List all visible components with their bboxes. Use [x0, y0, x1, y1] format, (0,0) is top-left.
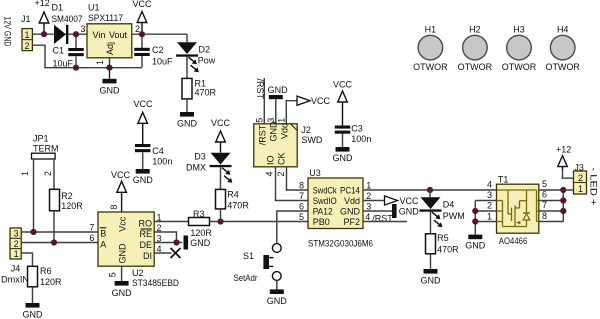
- svg-text:U3: U3: [309, 168, 321, 178]
- svg-text:SWD: SWD: [301, 135, 322, 145]
- svg-text:C3: C3: [351, 124, 363, 134]
- svg-text:2: 2: [366, 191, 371, 201]
- svg-text:GND: GND: [177, 119, 198, 129]
- svg-text:2: 2: [24, 41, 29, 51]
- svg-text:DmxIN: DmxIN: [1, 274, 29, 284]
- svg-text:+12: +12: [35, 0, 50, 8]
- svg-text:Adj: Adj: [105, 42, 115, 55]
- svg-text:VCC: VCC: [333, 80, 353, 90]
- svg-text:SM4007: SM4007: [52, 14, 83, 24]
- svg-text:2: 2: [135, 24, 140, 34]
- svg-text:VCC: VCC: [211, 118, 231, 128]
- svg-text:1: 1: [20, 171, 30, 176]
- svg-text:1: 1: [487, 211, 492, 221]
- svg-text:5: 5: [299, 212, 304, 222]
- svg-text:R2: R2: [61, 191, 73, 201]
- svg-text:1: 1: [95, 60, 105, 65]
- svg-text:2: 2: [43, 171, 53, 176]
- svg-text:D2: D2: [199, 45, 211, 55]
- svg-text:B: B: [100, 228, 106, 238]
- svg-text:Vcc: Vcc: [117, 216, 127, 232]
- svg-text:GND: GND: [269, 121, 279, 142]
- svg-text:470R: 470R: [227, 200, 249, 210]
- svg-text:A: A: [100, 240, 106, 250]
- svg-text:10uF: 10uF: [152, 57, 173, 67]
- svg-text:6: 6: [89, 233, 94, 243]
- svg-text:GND: GND: [267, 296, 288, 306]
- svg-text:DMX: DMX: [186, 163, 206, 173]
- svg-text:H2: H2: [469, 24, 481, 34]
- svg-text:GND: GND: [23, 310, 44, 319]
- svg-text:D4: D4: [443, 200, 455, 210]
- svg-text:DI: DI: [143, 251, 152, 261]
- svg-text:470R: 470R: [437, 245, 459, 255]
- svg-text:J1: J1: [21, 14, 31, 24]
- svg-text:12V GND: 12V GND: [2, 17, 12, 47]
- svg-text:RE: RE: [139, 229, 152, 239]
- svg-text:1: 1: [24, 30, 29, 40]
- svg-text:4: 4: [365, 212, 370, 222]
- svg-text:- LED +: - LED +: [588, 168, 598, 206]
- svg-text:IO: IO: [266, 155, 276, 165]
- svg-text:TERM: TERM: [33, 143, 59, 153]
- svg-text:5: 5: [108, 272, 118, 277]
- svg-text:2: 2: [14, 239, 19, 249]
- svg-text:VCC: VCC: [111, 170, 131, 180]
- svg-text:R4: R4: [227, 190, 239, 200]
- svg-text:10uF: 10uF: [53, 59, 74, 69]
- svg-text:GND: GND: [133, 175, 154, 185]
- svg-text:R6: R6: [40, 266, 52, 276]
- svg-text:Vin: Vin: [93, 30, 106, 40]
- svg-text:2: 2: [487, 201, 492, 211]
- svg-text:SPX1117: SPX1117: [88, 13, 123, 23]
- svg-text:J4: J4: [11, 263, 21, 273]
- svg-text:7: 7: [89, 223, 94, 233]
- svg-text:100n: 100n: [152, 156, 172, 166]
- svg-text:H4: H4: [557, 24, 569, 34]
- svg-text:GND: GND: [100, 86, 121, 96]
- svg-text:VCC: VCC: [134, 99, 154, 109]
- svg-text:120R: 120R: [40, 277, 62, 287]
- svg-text:C2: C2: [152, 45, 164, 55]
- svg-text:J2: J2: [301, 125, 311, 135]
- svg-text:PC14: PC14: [340, 185, 360, 195]
- svg-text:5: 5: [254, 118, 264, 123]
- svg-text:SetAdr: SetAdr: [234, 273, 258, 283]
- svg-text:H1: H1: [425, 24, 437, 34]
- svg-text:R3: R3: [193, 209, 205, 219]
- svg-text:C1: C1: [53, 46, 65, 56]
- svg-text:120R: 120R: [190, 228, 212, 238]
- svg-text:GND: GND: [190, 238, 211, 248]
- svg-text:AO4466: AO4466: [499, 236, 528, 246]
- svg-text:OTWOR: OTWOR: [502, 62, 537, 72]
- svg-text:100n: 100n: [351, 134, 371, 144]
- svg-text:1: 1: [366, 181, 371, 191]
- svg-text:OTWOR: OTWOR: [458, 62, 493, 72]
- svg-text:S1: S1: [243, 251, 254, 261]
- svg-text:T1: T1: [498, 174, 509, 184]
- svg-text:8: 8: [299, 181, 304, 191]
- svg-text:5: 5: [542, 179, 547, 189]
- svg-text:ST3485EBD: ST3485EBD: [132, 278, 179, 288]
- svg-text:+12: +12: [556, 145, 571, 155]
- svg-text:PA12: PA12: [313, 206, 333, 216]
- svg-text:DE: DE: [139, 240, 152, 250]
- svg-text:GND: GND: [421, 276, 442, 286]
- svg-text:SwdCk: SwdCk: [313, 185, 337, 195]
- svg-text:2: 2: [578, 173, 583, 183]
- svg-text:VCC: VCC: [311, 96, 331, 106]
- svg-text:PB0: PB0: [313, 217, 330, 227]
- svg-text:GND: GND: [399, 206, 420, 216]
- svg-text:Pow: Pow: [198, 56, 216, 66]
- svg-text:3: 3: [487, 190, 492, 200]
- svg-text:1: 1: [14, 249, 19, 259]
- svg-text:2: 2: [276, 171, 286, 176]
- svg-text:GND: GND: [112, 288, 133, 298]
- svg-text:U2: U2: [132, 268, 144, 278]
- svg-text:8: 8: [542, 211, 547, 221]
- svg-text:1: 1: [578, 184, 583, 194]
- svg-text:3: 3: [14, 228, 19, 238]
- svg-text:OTWOR: OTWOR: [413, 62, 448, 72]
- svg-text:470R: 470R: [195, 88, 217, 98]
- svg-text:3: 3: [366, 202, 371, 212]
- svg-text:R5: R5: [437, 233, 449, 243]
- svg-text:8: 8: [109, 205, 119, 210]
- svg-text:GND: GND: [117, 243, 127, 264]
- svg-text:PWM: PWM: [443, 211, 465, 221]
- svg-text:GND: GND: [333, 153, 354, 163]
- svg-text:H3: H3: [513, 24, 525, 34]
- svg-text:JP1: JP1: [33, 133, 49, 143]
- svg-text:U1: U1: [88, 3, 100, 13]
- svg-text:4: 4: [265, 171, 275, 176]
- svg-text:Vdd: Vdd: [279, 123, 289, 139]
- svg-text:VCC: VCC: [400, 196, 420, 206]
- svg-text:OTWOR: OTWOR: [545, 62, 580, 72]
- svg-text:7: 7: [299, 191, 304, 201]
- svg-text:Vout: Vout: [109, 30, 128, 40]
- svg-text:120R: 120R: [61, 201, 83, 211]
- svg-text:/RST: /RST: [258, 124, 268, 145]
- svg-text:4: 4: [487, 179, 492, 189]
- svg-text:SwdIO: SwdIO: [313, 196, 337, 206]
- svg-text:6: 6: [299, 202, 304, 212]
- svg-text:7: 7: [542, 200, 547, 210]
- svg-text:Vdd: Vdd: [344, 196, 360, 206]
- svg-text:6: 6: [542, 190, 547, 200]
- svg-text:STM32G030J6M6: STM32G030J6M6: [308, 238, 373, 248]
- svg-text:VCC: VCC: [132, 0, 152, 9]
- svg-text:GND: GND: [465, 241, 486, 251]
- svg-text:PF2: PF2: [343, 217, 360, 227]
- svg-text:/RST: /RST: [255, 79, 265, 100]
- svg-text:D1: D1: [52, 3, 64, 13]
- svg-text:D3: D3: [194, 151, 206, 161]
- svg-text:GND: GND: [340, 206, 361, 216]
- svg-text:C4: C4: [152, 146, 164, 156]
- svg-text:GND: GND: [268, 85, 289, 95]
- svg-text:RO: RO: [139, 218, 153, 228]
- svg-text:CK: CK: [277, 152, 287, 165]
- svg-text:3: 3: [80, 24, 85, 34]
